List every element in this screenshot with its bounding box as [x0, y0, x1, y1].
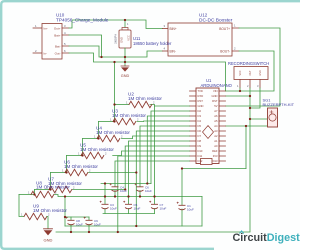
resistor terminal numbers: [21, 101, 155, 217]
wire Bat- to BIN-: [69, 46, 163, 57]
resistor U3: [99, 121, 114, 123]
buzzer circle: [269, 114, 276, 121]
wire BOUT+ to 5V rail: [226, 28, 281, 106]
cap plus marks: [66, 183, 179, 219]
resistor U9: [24, 213, 47, 219]
svg-text:3V3: 3V3: [213, 154, 218, 158]
wire buzzer pin1: [250, 118, 268, 120]
svg-text:D5: D5: [198, 124, 202, 128]
capacitor C4: [112, 187, 119, 192]
capacitor C6: [137, 187, 144, 192]
chain link U4-U5: [81, 139, 83, 156]
wire D8 to cap C5 column: [129, 141, 190, 204]
svg-text:U12: U12: [199, 13, 208, 18]
svg-text:RST: RST: [198, 99, 204, 103]
svg-text:OUT: OUT: [249, 70, 252, 76]
capacitor C8: [68, 220, 75, 225]
wire D5 to cap C6 column: [140, 126, 190, 187]
wire In+ stub: [33, 27, 42, 29]
svg-text:18650 battery holder: 18650 battery holder: [133, 41, 172, 46]
logo accent caret: [240, 231, 244, 233]
crystal diamond: [203, 126, 214, 139]
svg-text:1M Ohm resistor: 1M Ohm resistor: [64, 164, 98, 169]
wire D11 to h4: [118, 156, 190, 232]
svg-text:Bat+: Bat+: [54, 34, 61, 38]
wire Out- long ground track y62: [69, 53, 226, 91]
wire h2-h3 link: [64, 197, 66, 227]
wire D4 to U3 tap: [137, 120, 190, 123]
node battery top: [124, 20, 126, 28]
buzzer SG1 body: [268, 108, 278, 127]
cap C4 leads: [114, 191, 116, 197]
capacitor C9: [86, 220, 93, 225]
svg-text:RXD: RXD: [198, 94, 204, 98]
svg-text:Out+: Out+: [54, 27, 61, 31]
pin stubs right of module: [62, 28, 69, 53]
left pin stubs: [190, 91, 197, 161]
pin stubs right of booster: [232, 28, 239, 51]
svg-text:GND: GND: [121, 74, 130, 78]
svg-text:BOUT-: BOUT-: [220, 50, 230, 54]
bus h2b: [103, 213, 155, 215]
switch pin stubs: [240, 80, 260, 89]
recording switch SW1 box: [234, 67, 268, 80]
svg-text:D11: D11: [198, 154, 203, 158]
wire D12 to cap C4 column: [115, 161, 190, 187]
svg-text:BUZZERPTH-KIT: BUZZERPTH-KIT: [263, 102, 295, 107]
svg-text:ARDUINONANO: ARDUINONANO: [201, 83, 233, 88]
cap C6 leads: [139, 191, 141, 197]
bus h2: [55, 195, 203, 197]
wire U7 tap: [73, 189, 126, 191]
wire U6 tap: [89, 172, 137, 174]
wire h3 right riser: [201, 197, 203, 227]
battery holder U11 box: [119, 30, 131, 48]
svg-text:D6: D6: [198, 129, 202, 133]
cap C1 leads: [181, 209, 183, 226]
svg-text:A1: A1: [214, 139, 218, 143]
arduino left pin names: [198, 89, 204, 163]
wire D9 to h2b: [125, 146, 189, 190]
cap C9 leads: [88, 217, 90, 232]
resistor U7: [35, 189, 50, 191]
svg-text:VCC: VCC: [127, 35, 131, 41]
wire Out+ to battery top rail: [69, 20, 163, 29]
wire BIN+ stub: [163, 28, 169, 30]
svg-text:Out-: Out-: [55, 52, 61, 56]
arduino U1 box: [196, 88, 219, 164]
svg-text:GND: GND: [259, 70, 262, 76]
svg-text:A3: A3: [214, 129, 218, 133]
wire D2 to h2: [151, 111, 190, 184]
svg-text:D13: D13: [213, 159, 218, 163]
usb connector rect: [201, 159, 213, 165]
svg-text:GND: GND: [44, 238, 53, 243]
resistor U4: [83, 138, 98, 140]
svg-text:CircuitDigest: CircuitDigest: [233, 232, 301, 244]
bus h4 ground: [56, 231, 250, 233]
svg-text:In+: In+: [44, 27, 49, 31]
svg-text:BIN-: BIN-: [170, 50, 176, 54]
svg-text:10uF: 10uF: [187, 207, 194, 211]
capacitor C1: [179, 205, 186, 210]
svg-text:D12: D12: [198, 159, 203, 163]
svg-text:18650PH: 18650PH: [115, 34, 118, 44]
capacitor C5: [125, 204, 132, 209]
bus h17: [65, 216, 89, 218]
ground GND bottom left: [44, 229, 53, 235]
svg-text:5V: 5V: [214, 104, 217, 108]
svg-text:A7: A7: [214, 109, 218, 113]
wire switch pin3: [250, 88, 260, 108]
resistor U2: [115, 104, 130, 106]
wire D10 to U5 tap: [113, 151, 190, 156]
wire D7 to U4 tap: [122, 136, 190, 139]
svg-text:D2: D2: [198, 109, 202, 113]
chain link U6-U7: [49, 173, 51, 190]
wire battery bottom pin: [124, 48, 126, 66]
wire switch pin1 to VIN: [239, 88, 241, 91]
chain link U3-U4: [97, 122, 99, 139]
capacitor C3: [102, 204, 109, 209]
svg-text:1M Ohm resistor: 1M Ohm resistor: [33, 208, 67, 213]
svg-text:A5: A5: [214, 119, 218, 123]
capacitor labels: [76, 185, 194, 226]
svg-text:In-: In-: [44, 52, 48, 56]
svg-text:A6: A6: [214, 114, 218, 118]
chain link U8-U9: [19, 195, 24, 217]
resistor U6: [51, 172, 66, 174]
svg-text:10uF: 10uF: [94, 222, 101, 226]
wire Bat+ drop: [69, 35, 102, 57]
svg-text:10uF: 10uF: [110, 206, 117, 210]
buzzer plus mark: [270, 111, 273, 114]
right pin stubs: [219, 91, 226, 161]
svg-text:1M Ohm resistor: 1M Ohm resistor: [112, 113, 146, 118]
arduino right pin names: [212, 89, 218, 163]
DC-DC booster U12 box: [168, 23, 232, 56]
svg-text:REF: REF: [212, 149, 218, 153]
svg-text:GND: GND: [120, 37, 124, 43]
resistor U5: [67, 155, 82, 157]
wire U9 to ground: [47, 217, 48, 229]
cap C7 leads: [154, 209, 156, 214]
svg-text:BOUT+: BOUT+: [219, 27, 230, 31]
chain feed from ground track: [114, 62, 116, 105]
svg-text:1M Ohm resistor: 1M Ohm resistor: [96, 130, 130, 135]
svg-text:D7: D7: [198, 134, 202, 138]
svg-text:10uF: 10uF: [120, 189, 127, 193]
resistor U8: [19, 194, 31, 196]
svg-text:DC-DC Booster: DC-DC Booster: [199, 18, 233, 24]
svg-text:10uF: 10uF: [134, 206, 141, 210]
svg-text:1M Ohm resistor: 1M Ohm resistor: [80, 147, 114, 152]
bus h3: [65, 225, 202, 227]
wire A4 drop: [245, 126, 247, 169]
capacitor C7: [151, 204, 158, 209]
cap C5 leads: [128, 209, 130, 214]
battery holder U11 tab: [122, 28, 128, 31]
svg-text:RST: RST: [212, 99, 218, 103]
svg-text:D8: D8: [198, 139, 202, 143]
wire C1 column: [181, 169, 183, 206]
svg-text:TP4056_Charge_Module: TP4056_Charge_Module: [56, 18, 109, 23]
wire D3 to h1b: [147, 116, 189, 184]
svg-text:D10: D10: [198, 149, 203, 153]
svg-text:10uF: 10uF: [76, 222, 83, 226]
wire A4 line: [182, 168, 246, 170]
svg-text:1M Ohm resistor: 1M Ohm resistor: [36, 185, 70, 190]
svg-text:A0: A0: [214, 144, 218, 148]
wire D6 to h3: [136, 131, 189, 226]
svg-text:D3: D3: [198, 114, 202, 118]
svg-text:BIN+: BIN+: [170, 27, 177, 31]
wire GND pin / U2 tap column: [150, 105, 190, 107]
svg-text:D4: D4: [198, 119, 202, 123]
wire BIN- stub: [163, 50, 169, 52]
wire GND row: [226, 95, 251, 97]
bus h1b: [101, 183, 151, 185]
svg-text:10uF: 10uF: [160, 206, 167, 210]
wire U2 column down to cap C7: [154, 106, 156, 204]
wire A4 row to buzzer pin2: [226, 125, 268, 127]
cap C3 leads: [104, 184, 106, 214]
svg-text:A2: A2: [214, 134, 218, 138]
chain link U7-U8: [31, 190, 35, 195]
svg-text:GND: GND: [198, 104, 204, 108]
ground GND under battery: [121, 66, 129, 71]
chain link U5-U6: [65, 156, 67, 173]
svg-text:A4: A4: [214, 124, 218, 128]
wire switch pin2 down to ground bus: [249, 88, 251, 232]
svg-text:GND: GND: [212, 94, 218, 98]
svg-text:Bat-: Bat-: [55, 45, 61, 49]
wire BOUT- to VIN rail: [226, 51, 275, 91]
svg-text:TXD: TXD: [198, 89, 203, 93]
svg-text:10uF: 10uF: [145, 189, 152, 193]
svg-text:VCC: VCC: [239, 70, 242, 75]
svg-text:RECORDINGSWITCH: RECORDINGSWITCH: [228, 61, 269, 66]
wire In- stub: [33, 52, 42, 54]
svg-text:VIN: VIN: [213, 89, 218, 93]
charge module U10 box: [42, 24, 62, 60]
chain link U2-U3: [113, 105, 115, 122]
svg-text:1M Ohm resistor: 1M Ohm resistor: [128, 96, 162, 101]
cap C8 leads: [70, 217, 72, 232]
svg-text:D9: D9: [198, 144, 202, 148]
